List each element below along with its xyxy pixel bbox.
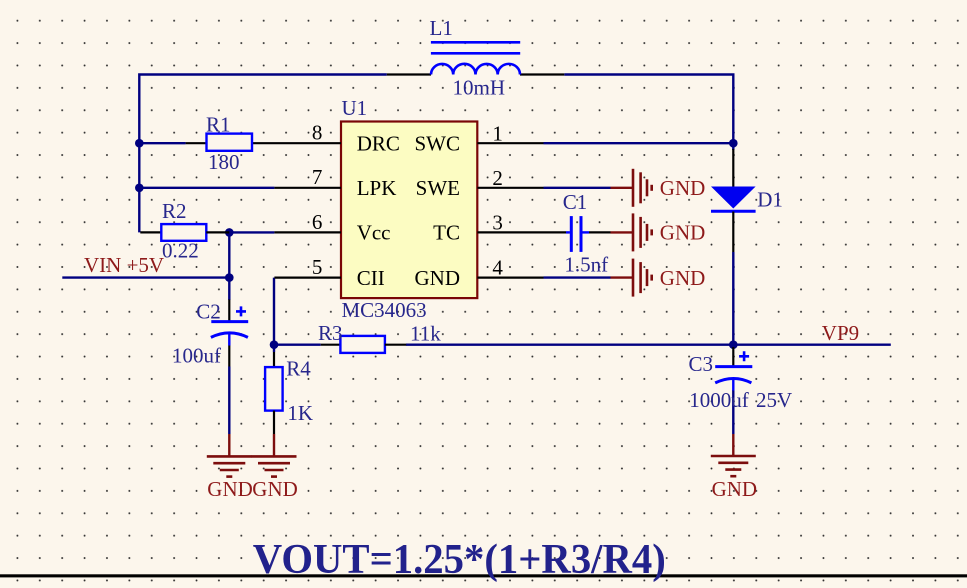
svg-text:10mH: 10mH [453, 75, 506, 99]
junction node diode/pin1 [729, 139, 738, 148]
svg-text:GND: GND [660, 221, 706, 245]
svg-text:2: 2 [492, 166, 503, 190]
wire R2 to pin6 [229, 231, 274, 233]
wire top rail from L1 left to corner and down [139, 75, 386, 233]
wire R3 node to R3 left pin [274, 344, 321, 346]
svg-text:1.5nf: 1.5nf [564, 253, 608, 277]
pin 6 line [274, 231, 341, 233]
junction node pin7/rail [135, 184, 144, 193]
pin 2 line [477, 187, 543, 189]
diode D1 [711, 149, 756, 252]
pin 5 line [274, 277, 341, 279]
svg-text:MC34063: MC34063 [342, 298, 427, 322]
power GND symbol (C1) [611, 213, 652, 251]
svg-text:0.22: 0.22 [162, 239, 199, 263]
svg-text:TC: TC [433, 221, 460, 245]
wire C2 bottom to ground lead [228, 367, 230, 435]
wire R3 right to VP9 end [406, 344, 891, 346]
svg-text:L1: L1 [430, 16, 453, 40]
wire rail to pin7 [139, 187, 274, 189]
capacitor C1 [566, 216, 611, 252]
capacitor C3 (polarized) [715, 347, 752, 391]
pin 1 line [477, 142, 543, 144]
resistor R3 [321, 336, 407, 353]
earth ground under C2 [207, 434, 252, 477]
svg-text:R1: R1 [206, 113, 231, 137]
power GND symbol (pin2) [611, 169, 652, 207]
earth ground under C3 [711, 434, 756, 476]
junction node R1/rail [135, 139, 144, 148]
svg-text:1000uf25V: 1000uf25V [689, 388, 792, 412]
op IC U1 MC34063 [341, 122, 477, 299]
svg-text:11k: 11k [410, 322, 441, 346]
svg-text:VIN +5V: VIN +5V [84, 253, 164, 277]
svg-text:Vcc: Vcc [357, 221, 391, 245]
svg-text:GND: GND [660, 176, 706, 200]
svg-text:C1: C1 [563, 190, 588, 214]
wire pin1 to diode node [544, 142, 734, 144]
svg-text:C3: C3 [689, 352, 714, 376]
inductor L1 [387, 42, 565, 74]
sheet bottom border [0, 574, 967, 577]
svg-text:R2: R2 [162, 199, 187, 223]
svg-text:180: 180 [208, 150, 240, 174]
wire VIN input [62, 276, 229, 278]
svg-text:LPK: LPK [357, 176, 397, 200]
earth ground under R4 [252, 434, 297, 477]
svg-text:4: 4 [492, 256, 503, 280]
pin 8 line (and R1 right lead) [252, 142, 341, 144]
svg-text:GND: GND [712, 477, 758, 501]
svg-text:SWC: SWC [414, 132, 460, 156]
wire pin5 down to R3 node [273, 278, 275, 352]
wire R2 node down to VIN node [228, 232, 230, 277]
resistor R4 [265, 352, 283, 434]
wire pin4 to GND lead [544, 276, 611, 278]
junction node R3/R4 [270, 340, 279, 349]
svg-text:CII: CII [357, 266, 385, 290]
svg-text:1: 1 [492, 121, 503, 145]
svg-text:5: 5 [312, 255, 323, 279]
wire rail to R1 [139, 142, 185, 144]
svg-text:R3: R3 [318, 321, 343, 345]
junction node R2/pin6 [225, 228, 234, 237]
svg-text:DRC: DRC [357, 132, 400, 156]
svg-text:6: 6 [312, 210, 323, 234]
svg-text:7: 7 [312, 165, 323, 189]
wire L1 right to diode corner [564, 75, 733, 151]
pin 3 line (continues into C1 left lead) [477, 231, 566, 233]
svg-text:D1: D1 [757, 188, 783, 212]
svg-text:C2: C2 [196, 299, 221, 323]
svg-text:GND: GND [415, 266, 461, 290]
wire VIN node down to C2 [228, 278, 230, 300]
svg-text:GND: GND [252, 477, 297, 501]
resistor R1 [186, 134, 252, 151]
svg-text:SWE: SWE [416, 176, 460, 200]
power GND symbol (pin4) [611, 259, 652, 297]
svg-text:VP9: VP9 [822, 321, 859, 345]
wire diode cathode down to VP9 node [732, 252, 734, 345]
junction node diode/VP9 [729, 340, 738, 349]
svg-text:R4: R4 [286, 357, 311, 381]
wire pin2 to GND lead [544, 187, 611, 189]
resistor R2 [140, 224, 229, 241]
capacitor C2 (polarized) [211, 300, 248, 367]
svg-text:100uf: 100uf [172, 343, 221, 367]
svg-text:GND: GND [207, 477, 253, 501]
junction node VIN/C2 [225, 273, 234, 282]
svg-text:1K: 1K [287, 401, 313, 425]
svg-text:VOUT=1.25*(1+R3/R4): VOUT=1.25*(1+R3/R4) [253, 537, 666, 583]
pin 7 line [274, 187, 341, 189]
svg-text:3: 3 [492, 211, 503, 235]
wire C3 bottom to ground lead [732, 390, 734, 434]
svg-text:U1: U1 [342, 96, 368, 120]
svg-text:8: 8 [312, 121, 323, 145]
pin 4 line [477, 277, 543, 279]
svg-text:GND: GND [660, 266, 706, 290]
